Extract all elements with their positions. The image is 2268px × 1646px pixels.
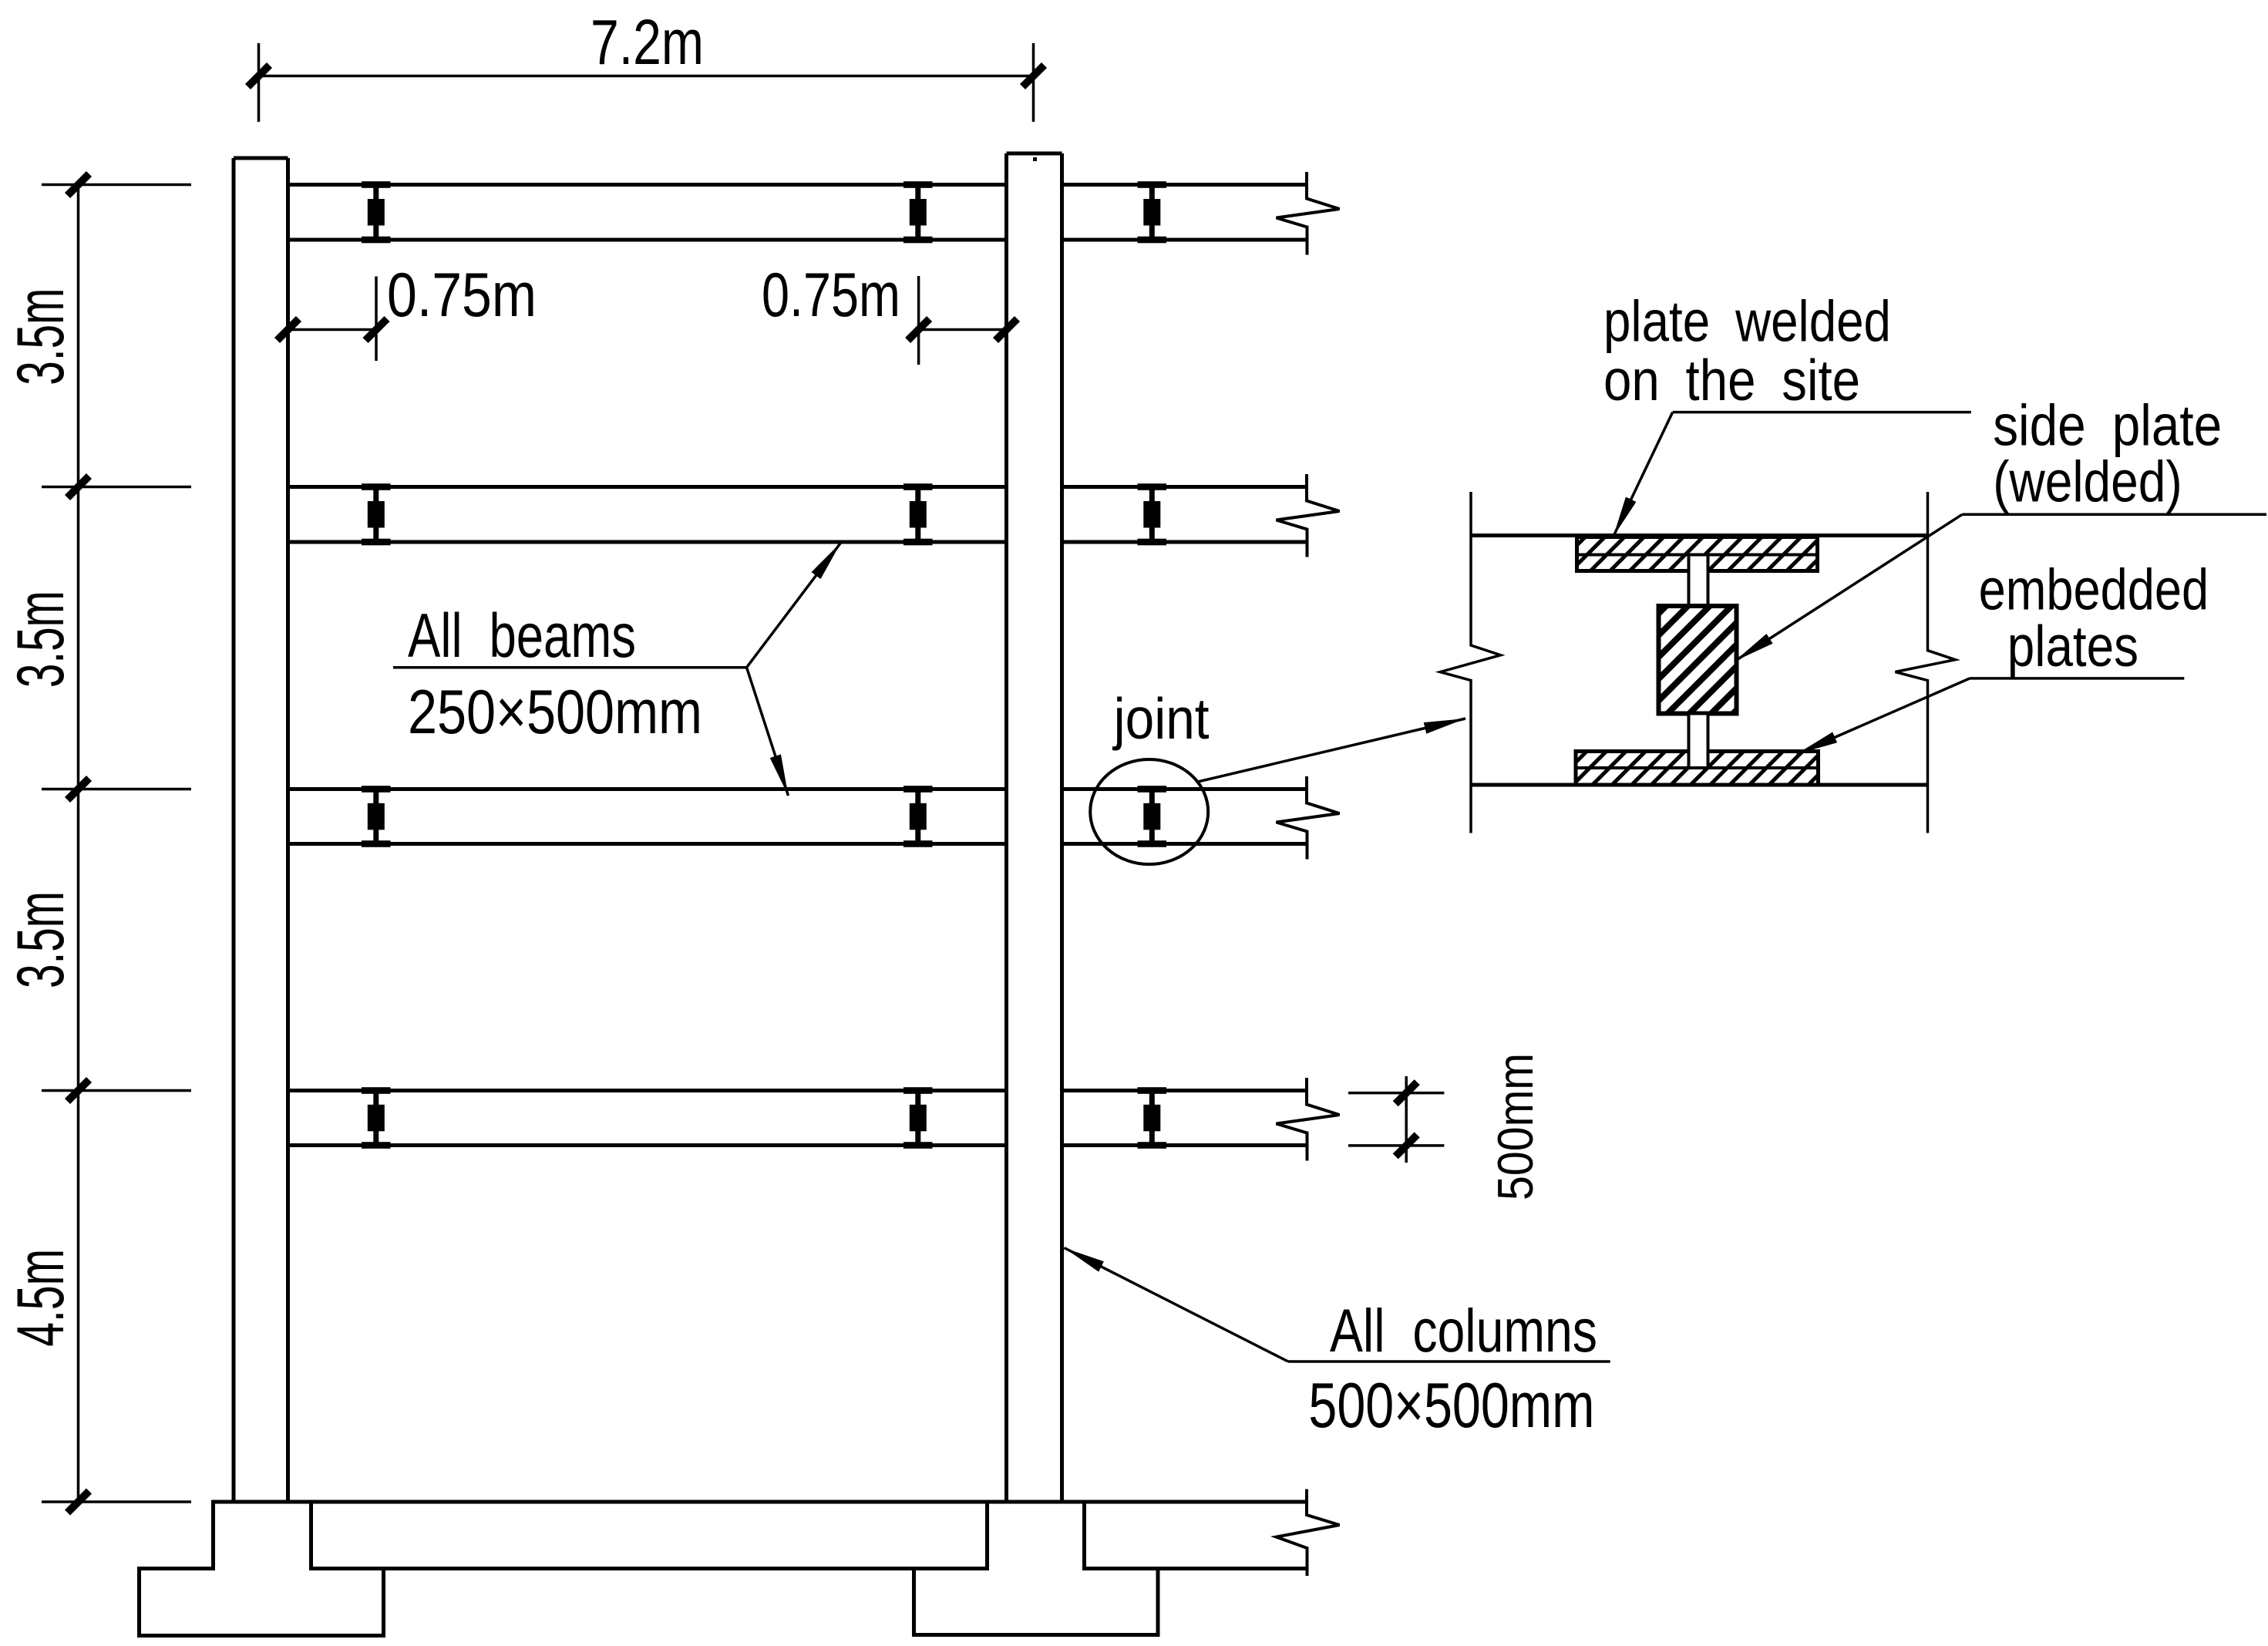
svg-text:3.5m: 3.5m	[4, 591, 78, 688]
dimension 0.75m left	[288, 277, 377, 362]
middle column	[1007, 153, 1062, 1502]
ground break	[1277, 1489, 1340, 1577]
detail: right break line	[1896, 492, 1956, 833]
joint symbol J1a (beam B1, left bay left end)	[362, 181, 391, 243]
All columns arrow to column	[1064, 1248, 1288, 1362]
svg-text:joint: joint	[1112, 686, 1210, 751]
plate welded leader	[1614, 412, 1971, 537]
svg-text:0.75m: 0.75m	[762, 261, 900, 330]
dimension ticks left chain	[68, 174, 89, 1513]
svg-text:7.2m: 7.2m	[591, 6, 704, 78]
svg-text:500mm: 500mm	[1487, 1053, 1543, 1200]
beam B2 break	[1277, 474, 1340, 557]
svg-text:500×500mm: 500×500mm	[1308, 1369, 1594, 1441]
left column	[234, 158, 288, 1502]
beam B3 break	[1277, 776, 1340, 860]
svg-text:0.75m: 0.75m	[387, 261, 537, 330]
detail: left break line	[1440, 492, 1500, 833]
small dot artifact on middle column stub	[1033, 157, 1037, 161]
beam B1 break	[1277, 172, 1340, 255]
right footing	[914, 1502, 1159, 1635]
joint symbol J4a (beam B4, left bay left end)	[362, 1087, 391, 1149]
joint symbol J4b (beam B4, left bay right end)	[903, 1087, 933, 1149]
joint symbol J3c (beam B3, right bay, circled)	[1138, 786, 1167, 847]
svg-text:plate welded: plate welded	[1603, 288, 1891, 353]
detail: top stem	[1689, 555, 1708, 607]
detail: beam top line	[1471, 534, 1928, 537]
ground line / tie beam	[214, 1502, 1307, 1569]
joint leader to detail	[1196, 719, 1465, 782]
detail: bottom stem	[1689, 714, 1708, 769]
svg-text:3.5m: 3.5m	[4, 288, 78, 385]
joint symbol J1b (beam B1, left bay right end)	[903, 181, 933, 243]
joint symbol J2b (beam B2, left bay right end)	[903, 483, 933, 545]
detail: side plate block (hatched)	[1659, 606, 1737, 714]
joint symbol J2c (beam B2, right bay)	[1138, 483, 1167, 545]
svg-text:All columns: All columns	[1330, 1296, 1597, 1365]
joint circle	[1090, 759, 1208, 864]
detail: top plates (hatched)	[1577, 537, 1818, 571]
top dimension 7.2m	[259, 43, 1034, 122]
joint symbol J2a (beam B2, left bay left end)	[362, 483, 391, 545]
svg-text:3.5m: 3.5m	[4, 891, 78, 988]
beam B4 break	[1277, 1078, 1340, 1161]
dimension 0.75m right	[919, 276, 1007, 365]
left dimension chain line	[42, 185, 191, 1503]
All beams underline	[393, 666, 747, 669]
svg-text:side plate: side plate	[1993, 393, 2222, 458]
detail: beam bottom line	[1471, 783, 1928, 787]
svg-text:250×500mm: 250×500mm	[408, 678, 702, 747]
svg-text:embedded: embedded	[1979, 557, 2209, 621]
side plate leader	[1735, 514, 2266, 661]
svg-text:All beams: All beams	[408, 601, 636, 671]
All beams arrow to B3	[747, 668, 789, 796]
svg-text:4.5m: 4.5m	[4, 1249, 78, 1347]
joint symbol J1c (beam B1, right bay)	[1138, 181, 1167, 243]
All columns underline	[1288, 1360, 1610, 1363]
All beams arrow to B2	[747, 543, 842, 668]
svg-text:(welded): (welded)	[1993, 449, 2182, 513]
embedded plates leader	[1797, 678, 2185, 754]
beam B4	[288, 1091, 1307, 1146]
beam B2	[288, 487, 1307, 543]
svg-text:plates: plates	[2007, 614, 2138, 678]
detail: bottom plates (hatched)	[1576, 752, 1819, 786]
beam B1 (roof)	[288, 185, 1307, 241]
beam B3	[288, 789, 1307, 844]
svg-text:on the site: on the site	[1603, 348, 1860, 412]
joint symbol J3b (beam B3, left bay right end)	[903, 786, 933, 847]
dimension 500mm	[1348, 1076, 1444, 1163]
joint symbol J3a (beam B3, left bay left end)	[362, 786, 391, 847]
left footing	[140, 1502, 384, 1636]
joint symbol J4c (beam B4, right bay)	[1138, 1087, 1167, 1149]
